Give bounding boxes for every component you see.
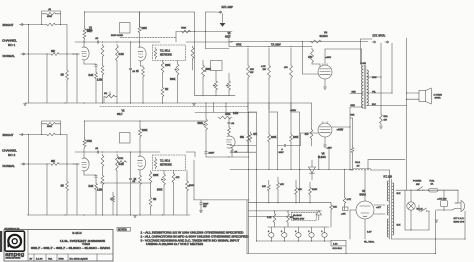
tube V4 6L6GC bbox=[318, 64, 332, 79]
text +400V bbox=[325, 57, 332, 59]
svg-text:B-15-N: B-15-N bbox=[72, 231, 81, 235]
wire x356 vertical bbox=[350, 118, 353, 146]
wire x318 vertical bbox=[318, 155, 320, 169]
wire filter caps top line bbox=[268, 226, 329, 228]
svg-text:T.C. NO.1: T.C. NO.1 bbox=[160, 51, 171, 53]
wire bus y169 bbox=[230, 169, 353, 170]
titleblock bottom dividers bbox=[34, 254, 97, 261]
svg-text:470K: 470K bbox=[47, 126, 52, 128]
resistor cathode V2B bbox=[134, 174, 142, 215]
wire col x47 ch2 bbox=[46, 163, 47, 215]
text OT wire colors bbox=[372, 77, 377, 106]
resistor bias r1 bbox=[262, 180, 270, 203]
svg-text:470K: 470K bbox=[118, 158, 124, 160]
wire top rail ch2 bbox=[84, 120, 207, 121]
wire col x77 ch1 bbox=[76, 53, 77, 103]
resistor dropper 4.7K bbox=[261, 48, 271, 110]
wire speaker feed bot bbox=[406, 99, 419, 100]
svg-text:NETWORK: NETWORK bbox=[160, 165, 172, 167]
dashed box tone network ch2 bbox=[153, 155, 186, 171]
svg-text:+.047-600: +.047-600 bbox=[437, 198, 447, 200]
svg-text:ECHO CONN.: ECHO CONN. bbox=[111, 35, 124, 37]
transformer T1 secondary bbox=[367, 70, 368, 106]
titleblock divider bbox=[28, 230, 113, 262]
svg-text:220K: 220K bbox=[153, 175, 159, 177]
svg-text:+165V: +165V bbox=[290, 110, 297, 112]
wire x329 vertical bbox=[328, 147, 330, 169]
text POWER SW bbox=[413, 181, 422, 186]
capacitor filter can C24 bbox=[321, 227, 327, 241]
wire bus y103 ext bbox=[195, 102, 312, 103]
resistor plate ch2 270K bbox=[83, 138, 92, 148]
tube V3A driver triode bbox=[226, 136, 235, 148]
potentiometer TREBLE ch1 bbox=[202, 60, 212, 96]
capacitor bypass ch2 bbox=[95, 175, 98, 182]
wire cathode V2B bbox=[139, 170, 141, 174]
transformer T2 power core bbox=[390, 179, 392, 239]
svg-text:3.3M: 3.3M bbox=[119, 54, 124, 56]
wire input bus ch2 bbox=[28, 134, 29, 165]
resistor driver grid bbox=[228, 113, 239, 136]
resistor 56K feedback bbox=[351, 115, 355, 170]
wire plate V4 bbox=[325, 49, 362, 66]
svg-text:220K: 220K bbox=[142, 130, 148, 132]
capacitor cathode bypass C2 bbox=[95, 64, 98, 71]
svg-text:47K: 47K bbox=[298, 189, 302, 191]
wire ch2 mid line bbox=[100, 182, 151, 184]
wire cathode V1B bbox=[140, 61, 142, 66]
text V2 6SL7 bbox=[117, 109, 125, 115]
wire OT center tap bbox=[350, 91, 363, 93]
wire OT sec tap3 bbox=[367, 105, 407, 107]
resistor bias r2 bbox=[277, 177, 285, 203]
svg-text:GRN: GRN bbox=[372, 77, 377, 79]
svg-text:1K: 1K bbox=[134, 179, 137, 181]
resistor grid stopper V4 bbox=[310, 40, 322, 43]
svg-text:6L6GC: 6L6GC bbox=[320, 34, 328, 38]
resistor R12 bbox=[161, 61, 164, 87]
svg-text:BLK: BLK bbox=[397, 225, 402, 227]
wire y95 line bbox=[195, 95, 235, 97]
resistor bright ch2 b bbox=[42, 123, 61, 129]
svg-text:270K: 270K bbox=[87, 141, 93, 143]
inductor choke CH1 bbox=[353, 162, 371, 170]
resistor 56ohm bbox=[380, 108, 388, 125]
wire normal line ch2 bbox=[24, 163, 50, 165]
ground ch2 bbox=[133, 216, 136, 218]
svg-text:SPKR: SPKR bbox=[435, 98, 441, 100]
wire drop 226 bbox=[225, 103, 227, 112]
wire y159 line bbox=[368, 160, 405, 170]
text +440V bbox=[337, 130, 344, 132]
svg-text:220K: 220K bbox=[312, 189, 318, 191]
svg-text:DWG: DWG bbox=[59, 258, 64, 260]
capacitor filter can C20 bbox=[268, 227, 274, 241]
resistor bright R1a bbox=[46, 23, 56, 26]
wire ground bus ch2 bbox=[27, 214, 190, 216]
resistor ch2 tone1 bbox=[149, 171, 152, 197]
resistor plate R10 220K bbox=[138, 12, 147, 48]
wire echo to b+ bbox=[205, 32, 229, 49]
text note 3 bbox=[141, 239, 241, 242]
resistor 68K ch2 bbox=[50, 161, 60, 166]
tube V5 6L6GC bbox=[318, 122, 332, 137]
svg-text:40+40+20: 40+40+20 bbox=[293, 215, 302, 217]
text note 2 bbox=[141, 235, 249, 238]
text NOTES header bbox=[117, 228, 131, 232]
text tube lineup bbox=[31, 247, 111, 250]
svg-text:2.2M: 2.2M bbox=[97, 80, 102, 82]
capacitor filter can C21 bbox=[281, 227, 287, 241]
text fil wdg bbox=[364, 242, 375, 244]
wire normal to grid ch2 bbox=[60, 163, 79, 164]
text PT label bbox=[384, 177, 393, 179]
svg-text:USING A 20,000 Ω / VOLT METER: USING A 20,000 Ω / VOLT METER bbox=[146, 243, 203, 246]
wire grid V5 bbox=[301, 133, 319, 146]
wire ps bottom bbox=[392, 211, 466, 240]
potentiometer hum bbox=[198, 112, 208, 140]
resistor mid 291 bbox=[290, 133, 299, 169]
svg-text:6SL7: 6SL7 bbox=[87, 30, 93, 33]
text CHANNEL NO 1 bbox=[2, 39, 17, 47]
svg-text:BRN: BRN bbox=[351, 105, 356, 107]
capacitor 20MF bbox=[205, 140, 215, 157]
resistor ch2 r7 bbox=[101, 154, 104, 174]
jack J1 bright input bbox=[19, 23, 23, 25]
text V3 6SL7 bbox=[225, 32, 231, 38]
wire driver cathode bbox=[231, 147, 233, 148]
wire normal line ch1 bbox=[24, 53, 50, 55]
resistor plate R6 270K bbox=[83, 27, 92, 40]
wire x300 vertical bbox=[299, 169, 301, 202]
text TC network ch2 bbox=[160, 161, 172, 167]
svg-text:4H: 4H bbox=[357, 166, 360, 168]
svg-text:BRIGHT: BRIGHT bbox=[3, 133, 14, 137]
text BLK labels bbox=[397, 193, 402, 227]
svg-text:T.C. NO.2: T.C. NO.2 bbox=[160, 161, 171, 163]
wire bracket 1 bbox=[248, 112, 257, 242]
svg-text:500K: 500K bbox=[170, 79, 176, 81]
ground ch1 right bbox=[192, 104, 195, 106]
svg-text:47K: 47K bbox=[176, 177, 180, 179]
capacitor 20MF 25V bbox=[199, 200, 209, 213]
wire y216 line bbox=[249, 215, 292, 217]
wire grid lead V1A bbox=[73, 53, 79, 55]
svg-text:470K: 470K bbox=[225, 114, 231, 116]
wire bright line ch2 bbox=[24, 134, 68, 136]
svg-text:10K: 10K bbox=[333, 207, 337, 209]
transformer T2 primary winding bbox=[393, 183, 394, 235]
wire ps to plug bbox=[440, 190, 458, 203]
svg-text:BLK: BLK bbox=[397, 193, 402, 195]
wire OT primary bottom bbox=[350, 105, 363, 107]
text US PATENT bbox=[60, 240, 106, 243]
wire echo line bbox=[176, 31, 232, 42]
text NO 44 bbox=[417, 209, 424, 211]
wire plate V5 bbox=[332, 126, 350, 128]
wire ps top line bbox=[396, 190, 458, 191]
svg-text:V4: V4 bbox=[324, 31, 328, 35]
wire x404 vertical bbox=[406, 38, 408, 190]
resistor R13 220K bbox=[161, 65, 171, 103]
svg-text:1M: 1M bbox=[153, 199, 156, 201]
svg-text:470K: 470K bbox=[236, 44, 242, 46]
svg-text:20MFD 475V: 20MFD 475V bbox=[293, 218, 305, 220]
text bottom row bbox=[30, 257, 89, 260]
svg-text:+417: +417 bbox=[376, 207, 382, 209]
wire col x77 ch2 bbox=[76, 163, 77, 215]
resistor R15 750K bbox=[181, 27, 191, 33]
text channel 2 BRIGHT label bbox=[3, 133, 14, 137]
resistor R9 3.3M bbox=[116, 44, 124, 103]
text slo-blo bbox=[333, 248, 343, 250]
text note 4 bbox=[146, 243, 203, 246]
svg-text:6SL7: 6SL7 bbox=[117, 113, 123, 116]
wire y199 line bbox=[194, 160, 249, 200]
wire plate V2A bbox=[83, 148, 85, 158]
svg-text:56K: 56K bbox=[351, 115, 355, 117]
svg-text:2 - ALL CAPACITORS IN MFD & 60: 2 - ALL CAPACITORS IN MFD & 600V UNLESS … bbox=[141, 235, 249, 238]
svg-text:1K: 1K bbox=[136, 71, 139, 73]
svg-text:3 - VOLTAGE READINGS ARE D.C.: 3 - VOLTAGE READINGS ARE D.C. TAKEN WITH… bbox=[141, 239, 241, 242]
svg-text:4.7K: 4.7K bbox=[347, 199, 352, 201]
svg-text:1M: 1M bbox=[104, 93, 107, 95]
svg-text:25V: 25V bbox=[203, 206, 207, 208]
svg-text:56Ω: 56Ω bbox=[384, 116, 388, 118]
ground ps bbox=[435, 210, 438, 254]
resistor cathode R5 ch1 5.6K bbox=[89, 71, 98, 103]
svg-text:2.2K: 2.2K bbox=[267, 217, 272, 219]
wire jack ground ch2 bbox=[28, 164, 30, 215]
svg-text:220K: 220K bbox=[271, 137, 277, 139]
titleblock outer box bbox=[4, 230, 113, 262]
wire col x47 ch1 bbox=[46, 53, 47, 103]
resistor TC inner ch1 bbox=[154, 48, 157, 60]
ground ch1 left bbox=[23, 104, 26, 106]
text channel 2 NORMAL label bbox=[3, 164, 16, 168]
node bus dots ch1 bbox=[64, 102, 163, 103]
svg-text:EXT. AMP: EXT. AMP bbox=[222, 6, 234, 9]
logo top tiny text bbox=[5, 227, 21, 230]
svg-text:500K: 500K bbox=[157, 190, 163, 192]
text channel 1 BRIGHT label bbox=[3, 23, 14, 27]
capacitor C .02 ch2 bbox=[95, 148, 99, 153]
svg-text:NORMAL: NORMAL bbox=[3, 54, 16, 58]
speaker SPK1 bbox=[419, 88, 431, 104]
wire rect plate leads bbox=[374, 205, 385, 214]
component box echo ch1 bbox=[111, 23, 130, 37]
svg-text:6.8M: 6.8M bbox=[233, 113, 238, 115]
text TC network ch1 bbox=[160, 51, 172, 57]
wire cathode V2A bbox=[84, 171, 96, 175]
text V4 6L6GC bbox=[320, 31, 328, 39]
transformer T1 output primary bbox=[362, 66, 363, 108]
resistor cathode R11 bbox=[136, 66, 144, 103]
text EXT SPKR bbox=[373, 35, 386, 38]
resistor 1M ch2 bbox=[61, 164, 69, 215]
wire y152 line bbox=[230, 152, 256, 153]
wire bracket 2 bbox=[269, 112, 278, 170]
capacitor line cap .047 bbox=[437, 198, 448, 206]
wire rect B+ up bbox=[364, 169, 365, 201]
capacitor driver bbox=[228, 118, 235, 127]
resistor bias r6 bbox=[287, 211, 295, 227]
svg-text:EXT. SPKR.: EXT. SPKR. bbox=[373, 35, 386, 38]
wire y211 line bbox=[249, 210, 321, 211]
wire bright net loop bbox=[41, 11, 61, 25]
component box tone sw bbox=[211, 61, 223, 71]
wire x229 join bbox=[228, 32, 230, 47]
svg-text:56K: 56K bbox=[250, 69, 254, 71]
svg-text:5.6K: 5.6K bbox=[89, 75, 94, 77]
svg-text:NO. 05000-4Q0658: NO. 05000-4Q0658 bbox=[70, 258, 89, 260]
wire jack ground ch1 bbox=[28, 54, 30, 103]
svg-text:750K: 750K bbox=[181, 27, 187, 29]
wire x381 to res bbox=[380, 77, 382, 108]
potentiometer tone A bbox=[213, 71, 218, 96]
logo ampeg symbol bbox=[5, 231, 25, 251]
resistor R3 1M ch1 bbox=[61, 54, 69, 103]
wire bracket 3 bbox=[291, 112, 300, 169]
resistor bright ch2 a bbox=[46, 133, 56, 136]
capacitor ch2 c4 bbox=[129, 152, 136, 215]
svg-text:6SL7: 6SL7 bbox=[225, 35, 231, 38]
wire x194 vertical bbox=[194, 32, 196, 96]
wire lamp bottom line bbox=[405, 190, 429, 230]
tube V6 5AR4 rectifier bbox=[356, 201, 374, 219]
resistor bias r5 bbox=[267, 211, 276, 227]
fuse F1 bbox=[426, 188, 440, 192]
svg-text:2 OHMS: 2 OHMS bbox=[434, 94, 443, 96]
svg-text:1M: 1M bbox=[165, 89, 168, 91]
dashed box cap values bbox=[292, 212, 317, 220]
svg-text:RED: RED bbox=[352, 91, 357, 93]
text TP 280V bbox=[271, 44, 281, 46]
wire cathode V5 bbox=[323, 137, 332, 150]
svg-text:FUS.: FUS. bbox=[430, 180, 435, 182]
svg-text:FIL. WDG.: FIL. WDG. bbox=[364, 242, 375, 244]
resistor diag ch2 bbox=[117, 158, 127, 163]
wire coupling line ch2 bbox=[75, 151, 160, 152]
resistor ch2 tone3 bbox=[172, 171, 180, 216]
resistor R14 bbox=[191, 46, 194, 70]
capacitor coupling .1 bbox=[278, 144, 301, 154]
potentiometer VOL ch1 bbox=[104, 92, 117, 104]
transformer T1 core bbox=[364, 65, 366, 109]
capacitor filter can C23 bbox=[308, 227, 314, 241]
svg-text:68K: 68K bbox=[51, 51, 56, 53]
wire normal to grid bbox=[60, 53, 79, 54]
svg-text:P.T. 12B: P.T. 12B bbox=[384, 177, 393, 179]
ground 56ohm bbox=[379, 126, 382, 128]
jack J4 normal input ch2 bbox=[21, 163, 25, 165]
wire speaker feed top bbox=[406, 92, 419, 93]
transformer T2 secondary winding bbox=[387, 181, 388, 237]
text cap label bbox=[48, 9, 52, 11]
resistor dropper 56K bbox=[247, 48, 255, 110]
svg-text:3.3M: 3.3M bbox=[119, 164, 124, 166]
wire x248 long vertical bbox=[248, 112, 250, 253]
text 6.3V bbox=[367, 232, 372, 234]
text label 470K bus bbox=[236, 44, 242, 46]
svg-text:CH-1: CH-1 bbox=[355, 162, 361, 164]
text V6 5AR4 bbox=[360, 190, 367, 197]
wire x381 vertical bbox=[380, 43, 381, 78]
potentiometer BASS ch1 bbox=[170, 61, 179, 104]
wire cathode V4 bbox=[323, 79, 326, 89]
dashed feedback long bbox=[100, 106, 249, 108]
text V5 6L6GC bbox=[318, 153, 326, 159]
potentiometer TREBLE ch2 bbox=[110, 192, 115, 215]
svg-text:POWER: POWER bbox=[413, 181, 422, 183]
svg-text:500K: 500K bbox=[198, 123, 204, 125]
wire junction ch2 bbox=[66, 135, 68, 165]
svg-text:+440V: +440V bbox=[337, 130, 344, 132]
svg-text:600V: 600V bbox=[279, 152, 285, 154]
svg-text:47K: 47K bbox=[253, 134, 258, 136]
capacitor C4 bbox=[129, 42, 136, 103]
svg-text:100K: 100K bbox=[293, 137, 299, 139]
resistor dropper 470 bbox=[284, 48, 293, 110]
wire dropper continue bbox=[248, 103, 291, 133]
wire lamp leads bbox=[410, 190, 412, 230]
svg-text:LINDEN, NEW JERSEY: LINDEN, NEW JERSEY bbox=[6, 258, 21, 260]
wire cap leads bbox=[437, 190, 453, 210]
resistor ch2 r8 bbox=[97, 174, 104, 215]
wire ground bus ch1 bbox=[25, 102, 195, 104]
svg-text:ampeg: ampeg bbox=[5, 252, 25, 258]
svg-text:47K: 47K bbox=[280, 184, 284, 186]
svg-text:4.7K: 4.7K bbox=[261, 66, 266, 68]
svg-text:TUBES: TUBES bbox=[82, 243, 90, 246]
wire rect fil left bbox=[350, 210, 365, 239]
wire y145 line bbox=[230, 145, 256, 147]
logo bottom tiny text bbox=[6, 258, 21, 260]
wire tone out ch2 bbox=[186, 152, 195, 157]
wire top rail ch1 bbox=[84, 11, 217, 12]
svg-text:56K: 56K bbox=[240, 137, 245, 139]
svg-text:50/60 CPS: 50/60 CPS bbox=[454, 222, 465, 224]
resistor 470K driver bbox=[218, 114, 232, 119]
component box echo ch2 bbox=[120, 133, 131, 144]
wire y202 line bbox=[249, 202, 332, 203]
svg-text:NORMAL: NORMAL bbox=[3, 164, 16, 168]
wire grid lead V2A bbox=[73, 163, 79, 165]
resistor plate V2B 220K bbox=[139, 127, 148, 157]
svg-text:NO 1: NO 1 bbox=[8, 43, 16, 47]
wire tone out bbox=[186, 41, 232, 43]
svg-text:SLO-BLO: SLO-BLO bbox=[333, 248, 343, 250]
resistor 47K driver bbox=[249, 132, 257, 142]
svg-text:NETWORK: NETWORK bbox=[160, 55, 172, 57]
jack J3 bright input ch2 bbox=[19, 133, 23, 135]
tube V1A 6SL7 triode bbox=[82, 47, 89, 60]
resistor bright R1b bbox=[42, 13, 61, 19]
text 117V AC bbox=[454, 217, 465, 224]
capacitor small box bbox=[341, 207, 348, 216]
svg-text:6SL7 - 6SL7 - 6SL7 - 6L6GC - 6: 6SL7 - 6SL7 - 6SL7 - 6L6GC - 6L6GC - 5AR… bbox=[31, 247, 111, 250]
svg-text:P-805: P-805 bbox=[361, 63, 367, 65]
wire x350 vertical bbox=[349, 107, 350, 170]
potentiometer TREB ch2 bbox=[186, 171, 195, 216]
svg-text:5.6K: 5.6K bbox=[89, 186, 94, 188]
lamp pilot PL1 bbox=[407, 202, 415, 210]
wire ext amp gnd lead bbox=[222, 14, 224, 24]
logo ampeg text bbox=[5, 252, 25, 258]
text note 1 bbox=[141, 231, 244, 234]
svg-text:6L6GC: 6L6GC bbox=[318, 156, 326, 159]
wire b+ line y46.5 bbox=[229, 46, 311, 47]
